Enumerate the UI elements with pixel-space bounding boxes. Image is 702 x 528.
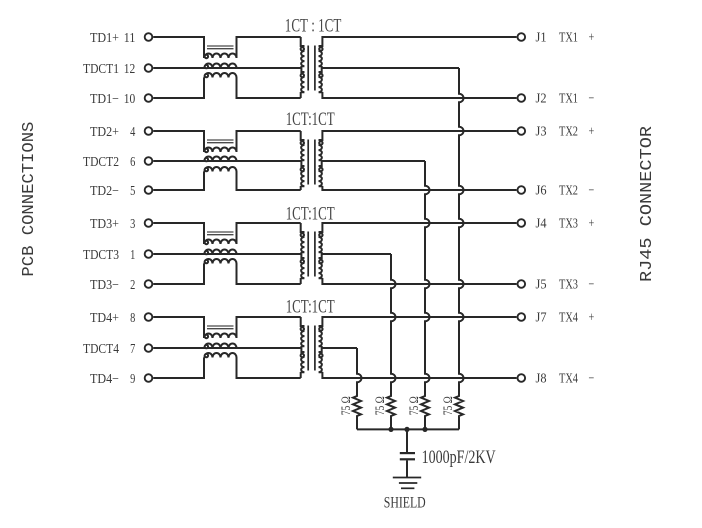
svg-text:J2: J2: [536, 92, 547, 107]
svg-text:9: 9: [130, 372, 135, 387]
svg-text:J1: J1: [536, 31, 547, 46]
svg-text:TX2: TX2: [559, 184, 578, 199]
svg-text:1CT:1CT: 1CT:1CT: [286, 204, 335, 225]
svg-text:TD2−: TD2−: [90, 184, 119, 199]
svg-text:TD1+: TD1+: [90, 31, 119, 46]
svg-text:7: 7: [130, 342, 135, 357]
svg-text:TD2+: TD2+: [90, 125, 119, 140]
svg-text:J6: J6: [536, 184, 547, 199]
svg-text:11: 11: [124, 31, 136, 46]
svg-text:J3: J3: [536, 125, 547, 140]
svg-text:4: 4: [130, 125, 135, 140]
svg-text:+: +: [589, 311, 595, 326]
svg-text:TDCT1: TDCT1: [83, 62, 119, 77]
svg-text:TX3: TX3: [559, 217, 578, 232]
svg-text:−: −: [589, 184, 595, 199]
svg-text:TX4: TX4: [559, 372, 578, 387]
svg-text:10: 10: [124, 92, 136, 107]
svg-text:6: 6: [130, 155, 135, 170]
svg-text:TX1: TX1: [559, 92, 578, 107]
svg-text:J4: J4: [536, 217, 547, 232]
svg-text:−: −: [589, 372, 595, 387]
svg-text:J7: J7: [536, 311, 547, 326]
svg-text:SHIELD: SHIELD: [384, 495, 426, 512]
svg-text:75 Ω: 75 Ω: [373, 396, 387, 415]
svg-text:1: 1: [130, 248, 135, 263]
svg-text:PCB CONNECTIONS: PCB CONNECTIONS: [20, 122, 39, 277]
svg-text:TD4+: TD4+: [90, 311, 119, 326]
svg-text:1CT:1CT: 1CT:1CT: [286, 297, 335, 318]
svg-text:TDCT4: TDCT4: [83, 342, 119, 357]
svg-text:75 Ω: 75 Ω: [441, 396, 455, 415]
svg-text:J5: J5: [536, 278, 547, 293]
svg-text:1000pF/2KV: 1000pF/2KV: [422, 447, 496, 468]
svg-text:TX2: TX2: [559, 125, 578, 140]
svg-text:TX4: TX4: [559, 311, 578, 326]
svg-text:1CT:1CT: 1CT:1CT: [286, 109, 335, 130]
svg-text:5: 5: [130, 184, 135, 199]
svg-text:+: +: [589, 217, 595, 232]
svg-text:+: +: [589, 125, 595, 140]
svg-text:2: 2: [130, 278, 135, 293]
svg-text:−: −: [589, 278, 595, 293]
svg-text:TD4−: TD4−: [90, 372, 119, 387]
svg-text:TX1: TX1: [559, 31, 578, 46]
svg-text:TDCT3: TDCT3: [83, 248, 119, 263]
svg-text:TX3: TX3: [559, 278, 578, 293]
svg-text:TD3−: TD3−: [90, 278, 119, 293]
svg-text:J8: J8: [536, 372, 547, 387]
svg-text:TD3+: TD3+: [90, 217, 119, 232]
svg-text:RJ45 CONNECTOR: RJ45 CONNECTOR: [638, 126, 657, 282]
svg-text:75 Ω: 75 Ω: [339, 396, 353, 415]
svg-text:12: 12: [124, 62, 136, 77]
svg-text:8: 8: [130, 311, 135, 326]
svg-text:3: 3: [130, 217, 135, 232]
svg-text:75 Ω: 75 Ω: [407, 396, 421, 415]
svg-text:TD1−: TD1−: [90, 92, 119, 107]
svg-text:−: −: [589, 92, 595, 107]
svg-text:TDCT2: TDCT2: [83, 155, 119, 170]
svg-text:+: +: [589, 31, 595, 46]
svg-text:1CT : 1CT: 1CT : 1CT: [285, 16, 342, 37]
